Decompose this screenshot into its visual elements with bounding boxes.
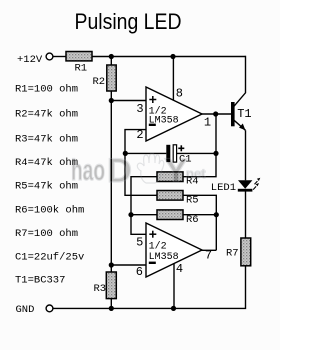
svg-text:LED1: LED1 bbox=[211, 182, 236, 194]
watermark bbox=[71, 152, 206, 190]
node R3-GND junction bbox=[109, 306, 114, 311]
wire pin6 bbox=[111, 264, 146, 266]
svg-text:C1=22uf/25v: C1=22uf/25v bbox=[15, 252, 84, 264]
wire top rail bbox=[92, 56, 246, 58]
svg-text:LM358: LM358 bbox=[149, 252, 179, 263]
wire LED to R7 bbox=[245, 191, 247, 238]
op-amp U1 minus input bbox=[149, 124, 156, 126]
op-amp U1 triangle bbox=[146, 87, 202, 141]
wire emitter to LED bbox=[245, 130, 247, 180]
wire C1 left bbox=[125, 152, 166, 154]
svg-text:5: 5 bbox=[136, 236, 143, 250]
resistor R6 bbox=[157, 210, 183, 220]
svg-text:R2=47k ohm: R2=47k ohm bbox=[15, 109, 78, 121]
node pin6 junction bbox=[109, 262, 114, 267]
resistor R7 bbox=[241, 238, 251, 266]
node C1-rail junction bbox=[213, 151, 218, 156]
svg-text:1: 1 bbox=[204, 116, 211, 130]
resistor R5 bbox=[157, 191, 183, 201]
wire rail L1 bbox=[110, 57, 112, 309]
node R1-R2 junction bbox=[109, 54, 114, 59]
wire R5 right bbox=[183, 195, 216, 250]
wire pin2 bbox=[125, 130, 157, 196]
wire output2 bbox=[202, 249, 217, 251]
wire collector drop bbox=[234, 56, 246, 107]
svg-text:R3=47k ohm: R3=47k ohm bbox=[15, 134, 78, 146]
svg-text:Pulsing LED: Pulsing LED bbox=[75, 9, 182, 34]
resistor R4 bbox=[157, 172, 183, 182]
terminal GND bbox=[46, 305, 53, 312]
svg-text:net: net bbox=[186, 166, 206, 181]
svg-text:GND: GND bbox=[16, 304, 35, 316]
wire C1 right bbox=[177, 152, 216, 154]
node pin2-C1 junction bbox=[123, 151, 128, 156]
svg-text:+12V: +12V bbox=[17, 54, 43, 66]
svg-text:8: 8 bbox=[176, 87, 183, 101]
node pin3 junction bbox=[109, 98, 114, 103]
svg-text:R5: R5 bbox=[186, 195, 199, 207]
svg-text:T1=BC337: T1=BC337 bbox=[15, 275, 65, 287]
op-amp U2 triangle bbox=[146, 223, 202, 277]
resistor R2 bbox=[107, 65, 116, 91]
node pin8 junction bbox=[170, 54, 175, 59]
svg-text:R4=47k ohm: R4=47k ohm bbox=[15, 157, 78, 169]
op-amp U2 plus input bbox=[149, 231, 156, 238]
capacitor C1 bbox=[166, 145, 170, 162]
node R6-right junction bbox=[214, 212, 219, 217]
wire R6 right bbox=[183, 214, 216, 216]
svg-text:R7=100 ohm: R7=100 ohm bbox=[15, 228, 78, 240]
svg-text:2: 2 bbox=[136, 128, 143, 142]
wire pin3 bbox=[111, 100, 146, 102]
wire R4 left and pin5 bbox=[131, 177, 157, 235]
wire rail R upper bbox=[183, 114, 216, 177]
svg-text:R1: R1 bbox=[75, 63, 88, 75]
op-amp U2 minus input bbox=[149, 262, 156, 264]
node pin4-GND junction bbox=[171, 306, 176, 311]
node output1 junction bbox=[213, 111, 218, 116]
resistor R1 bbox=[66, 52, 92, 61]
svg-text:6: 6 bbox=[136, 265, 143, 279]
LED light arrows bbox=[253, 181, 257, 190]
transistor Q1 emitter bbox=[234, 120, 246, 131]
svg-text:R5=47k ohm: R5=47k ohm bbox=[15, 180, 78, 192]
wire pin4 bbox=[173, 264, 175, 309]
wire output1 to base bbox=[202, 113, 232, 115]
svg-text:3: 3 bbox=[136, 102, 143, 116]
svg-text:R6=100k ohm: R6=100k ohm bbox=[15, 204, 84, 216]
svg-text:R6: R6 bbox=[186, 214, 199, 226]
svg-text:R2: R2 bbox=[93, 76, 106, 88]
svg-text:D: D bbox=[107, 152, 132, 190]
op-amp U1 plus input bbox=[149, 96, 156, 103]
terminal +12V bbox=[46, 53, 53, 60]
svg-text:R3: R3 bbox=[94, 283, 107, 295]
transistor Q1 base bar bbox=[231, 102, 235, 126]
svg-text:Y: Y bbox=[164, 152, 188, 190]
wire pin8 bbox=[172, 57, 174, 101]
wire R6 left bbox=[131, 214, 157, 216]
svg-text:LM358: LM358 bbox=[149, 116, 179, 127]
svg-text:R1=100 ohm: R1=100 ohm bbox=[15, 84, 78, 96]
LED LED1 bbox=[238, 180, 252, 188]
node R6-left junction bbox=[128, 212, 133, 217]
wire bottom GND rail bbox=[53, 266, 246, 309]
resistor R3 bbox=[106, 272, 116, 299]
svg-text:T1: T1 bbox=[237, 107, 251, 121]
svg-text:7: 7 bbox=[205, 249, 212, 263]
svg-text:R7: R7 bbox=[226, 248, 239, 260]
wire +12V to R1 bbox=[53, 56, 66, 58]
svg-text:1/2: 1/2 bbox=[149, 241, 167, 253]
svg-text:4: 4 bbox=[176, 262, 183, 276]
svg-text:hao: hao bbox=[71, 154, 105, 187]
